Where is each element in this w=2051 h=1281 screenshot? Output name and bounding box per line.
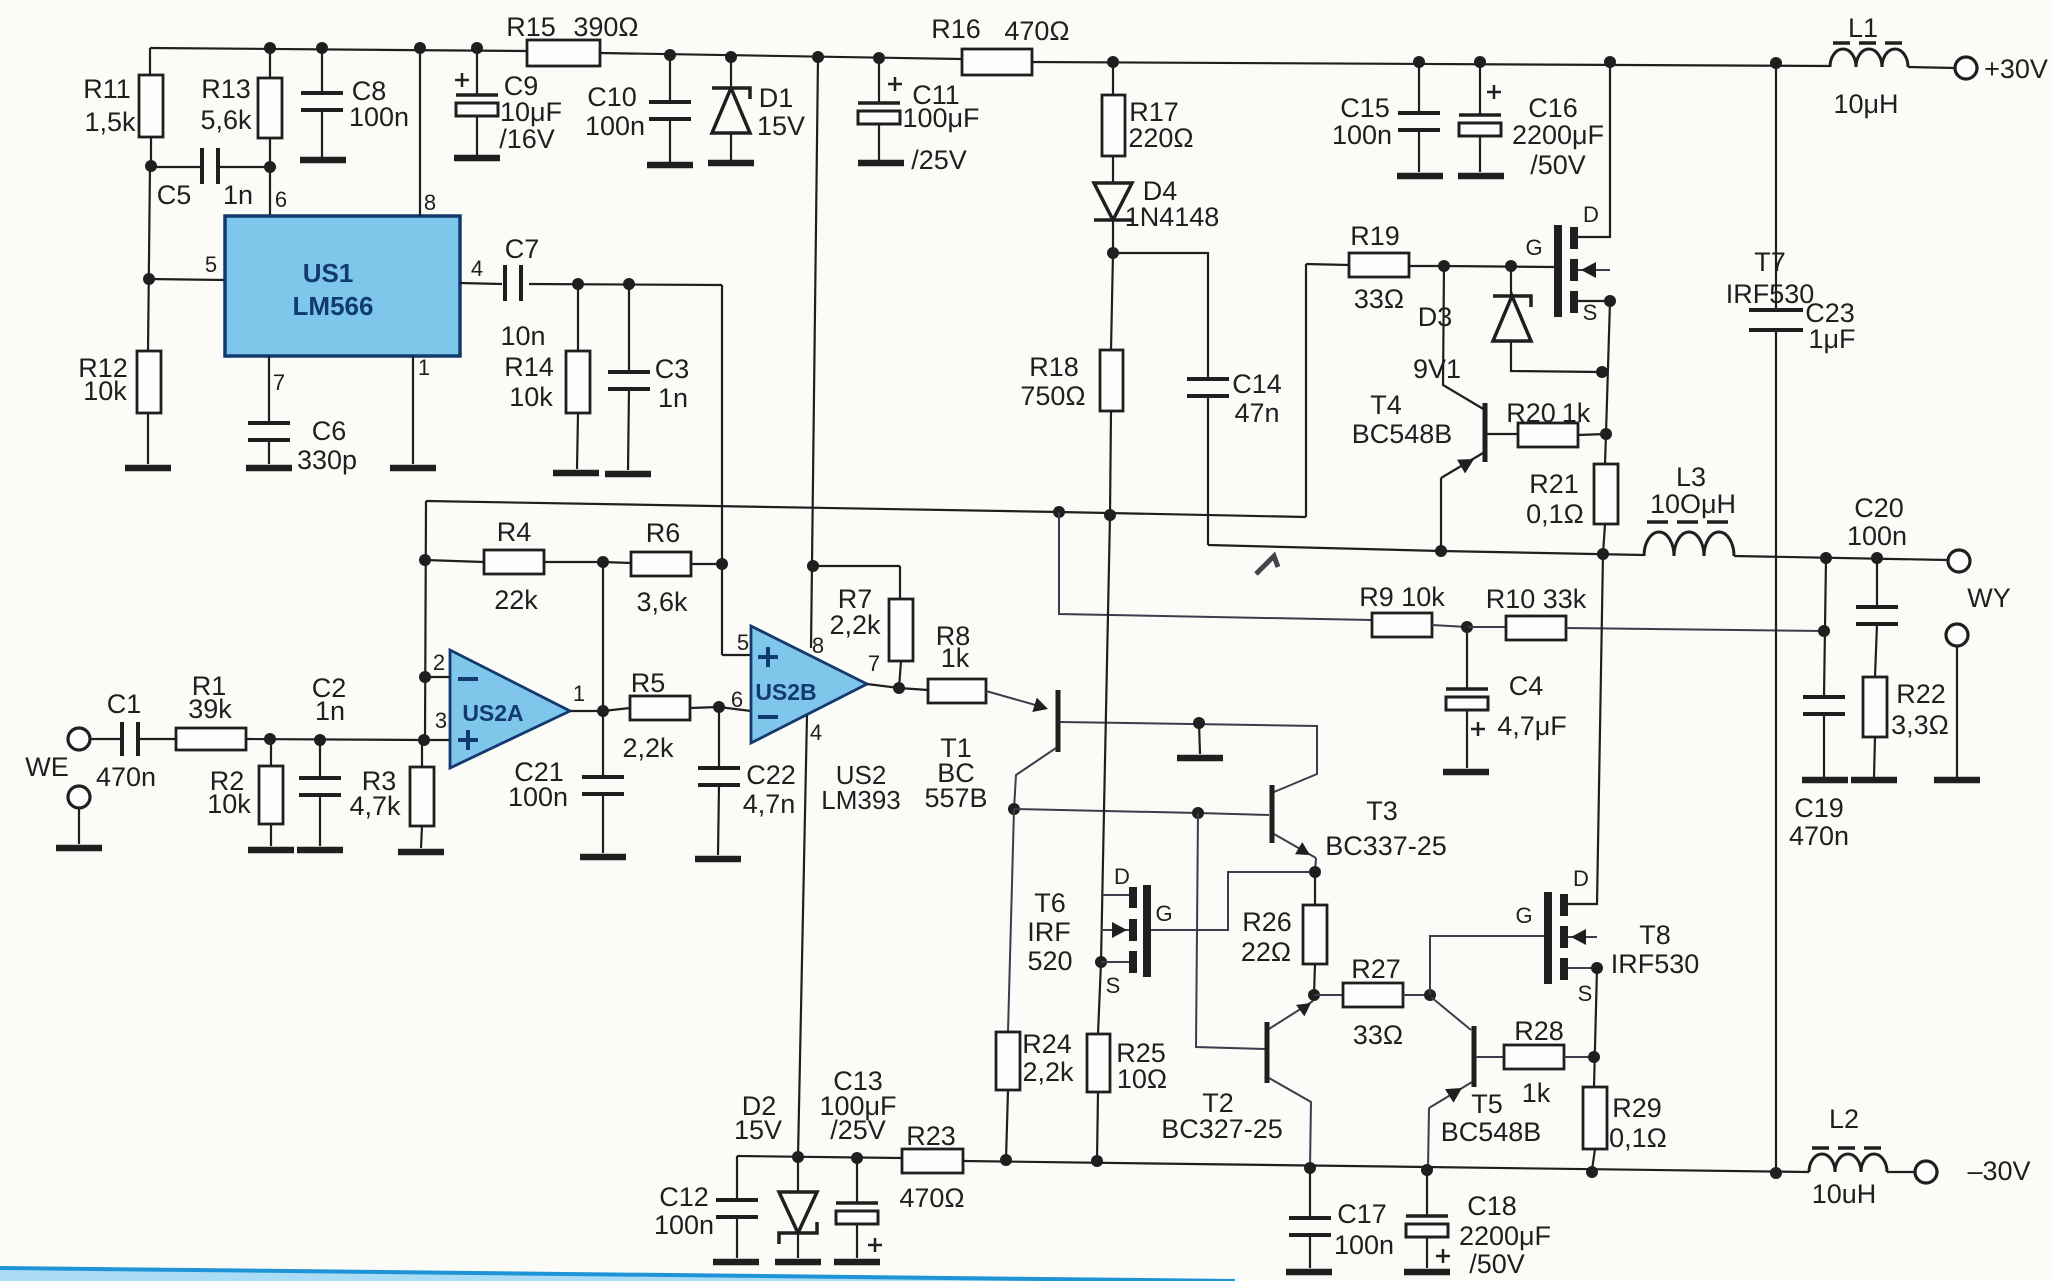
resistor R27	[1314, 994, 1343, 996]
wire left vertical C5 to pin5 to R12	[148, 166, 150, 351]
capacitor C18 electrolytic	[1426, 1170, 1428, 1216]
resistor R1	[176, 728, 246, 750]
capacitor C2	[319, 740, 321, 778]
op-amp US2A	[450, 650, 570, 768]
svg-text:33Ω: 33Ω	[1353, 1020, 1403, 1050]
wire C14 bottom to output rail	[1208, 545, 1441, 551]
wire T6 drain lead	[1101, 894, 1129, 896]
ground C22	[695, 856, 741, 863]
ground D2	[775, 1259, 821, 1266]
svg-text:C7: C7	[505, 234, 540, 264]
ground D1	[708, 160, 754, 167]
svg-text:IRF: IRF	[1027, 917, 1071, 947]
ground C13	[834, 1259, 880, 1266]
wire R12 to ground	[147, 413, 149, 464]
capacitor C5	[151, 166, 200, 168]
svg-text:C17: C17	[1337, 1199, 1387, 1229]
svg-text:R4: R4	[497, 517, 532, 547]
ground R14	[553, 470, 599, 477]
ground pin1	[390, 465, 436, 472]
svg-text:6: 6	[275, 187, 287, 212]
ground C18	[1404, 1269, 1450, 1276]
svg-text:9V1: 9V1	[1413, 354, 1461, 384]
svg-text:6: 6	[731, 687, 743, 712]
svg-text:C14: C14	[1232, 369, 1282, 399]
resistor R10	[1467, 626, 1506, 628]
svg-text:G: G	[1155, 901, 1172, 926]
node T3emitter-R26-gate	[1309, 866, 1321, 878]
wire R27 node to T8 gate	[1430, 936, 1544, 995]
wire T4 collector	[1443, 266, 1485, 410]
svg-text:2200μF: 2200μF	[1512, 120, 1604, 150]
node fb-R4	[419, 554, 431, 566]
wire US2B V+ from rail	[811, 57, 818, 648]
svg-text:10OμH: 10OμH	[1650, 489, 1736, 519]
node T6 source	[1095, 956, 1107, 968]
ground R22	[1851, 777, 1897, 784]
wire top rail right segment to L1	[1032, 62, 1830, 66]
svg-text:US2B: US2B	[755, 679, 816, 705]
wire R8 to T1 emitter	[986, 691, 1046, 708]
node pin5 junction	[143, 273, 155, 285]
resistor R19	[1306, 264, 1349, 265]
resistor R4	[425, 560, 484, 562]
node T7 source	[1604, 295, 1616, 307]
svg-text:4,7μF: 4,7μF	[1497, 711, 1567, 741]
wire T8 source lead	[1568, 967, 1597, 969]
svg-text:R13: R13	[201, 74, 251, 104]
svg-text:R5: R5	[631, 668, 666, 698]
svg-text:R23: R23	[906, 1121, 956, 1151]
node T4emitter-rail	[1435, 545, 1447, 557]
wire T8 drain lead	[1568, 554, 1603, 904]
node C5-R13	[264, 161, 276, 173]
transistor T3 BC337-25	[1270, 785, 1275, 843]
capacitor C9 electrolytic	[476, 48, 478, 95]
svg-text:10μF: 10μF	[500, 97, 562, 127]
transistor T8 IRF530	[1544, 892, 1552, 984]
svg-text:3,3Ω: 3,3Ω	[1891, 710, 1949, 740]
resistor R9	[1372, 613, 1432, 637]
wire T6 source lead	[1101, 961, 1129, 963]
IC US1 LM566	[225, 216, 460, 356]
svg-text:D: D	[1583, 202, 1599, 227]
svg-text:220Ω: 220Ω	[1128, 123, 1193, 153]
svg-text:WE: WE	[25, 752, 69, 782]
svg-text:C20: C20	[1854, 493, 1904, 523]
wire gate drive to T7	[1444, 266, 1554, 267]
wire R18 node long vertical to T6 source	[1101, 515, 1110, 962]
resistor R13	[269, 48, 271, 78]
node R2 tap	[264, 733, 276, 745]
wire T1 base to T3 collector net	[1060, 722, 1317, 792]
svg-text:WY: WY	[1967, 583, 2011, 613]
wire T6 source to R25	[1098, 962, 1101, 1034]
svg-text:10k: 10k	[83, 376, 127, 406]
svg-text:/25V: /25V	[911, 145, 967, 175]
wire R4R6 node down to output node	[602, 562, 604, 711]
svg-text:T5: T5	[1471, 1089, 1503, 1119]
svg-text:22Ω: 22Ω	[1241, 937, 1291, 967]
svg-text:7: 7	[273, 370, 285, 395]
wire top rail R15-R16 segment	[600, 53, 962, 59]
svg-text:5: 5	[205, 252, 217, 277]
ground C19	[1802, 777, 1848, 784]
ground R3	[398, 849, 444, 856]
svg-text:470n: 470n	[96, 762, 156, 792]
svg-text:IRF530: IRF530	[1726, 279, 1815, 309]
svg-text:470Ω: 470Ω	[899, 1183, 964, 1213]
wire US2A feedback vertical	[425, 501, 426, 740]
ground R12	[125, 465, 171, 472]
node rail-T7drain	[1604, 56, 1616, 68]
capacitor C15	[1418, 62, 1420, 113]
svg-text:15V: 15V	[734, 1115, 782, 1145]
node rail-C20	[1871, 552, 1883, 564]
node R18-feedback	[1104, 509, 1116, 521]
svg-text:R18: R18	[1029, 352, 1079, 382]
node rail-C9	[471, 42, 483, 54]
svg-text:C3: C3	[655, 354, 690, 384]
node R27-T8gate-T5coll	[1424, 989, 1436, 1001]
svg-text:330p: 330p	[297, 445, 357, 475]
capacitor C14	[1187, 377, 1229, 381]
capacitor C21	[602, 711, 604, 777]
resistor R22	[1863, 677, 1887, 737]
wire WY lower to ground	[1956, 646, 1958, 777]
wire T7 body lead	[1578, 269, 1610, 271]
transistor T5 BC548B	[1472, 1026, 1477, 1087]
node rail-C13	[851, 1152, 863, 1164]
svg-text:390Ω: 390Ω	[573, 12, 638, 42]
svg-text:C4: C4	[1509, 671, 1544, 701]
svg-text:1: 1	[418, 355, 430, 380]
wire T5 collector	[1431, 997, 1471, 1030]
resistor R29	[1583, 1087, 1607, 1149]
wire T8 source down to R29	[1594, 968, 1597, 1087]
svg-text:R9 10k: R9 10k	[1359, 582, 1445, 612]
svg-text:L3: L3	[1676, 462, 1706, 492]
svg-text:10uH: 10uH	[1812, 1179, 1877, 1209]
svg-text:L2: L2	[1829, 1104, 1859, 1134]
svg-text:D3: D3	[1418, 302, 1453, 332]
wire +15V top rail left segment	[150, 48, 527, 51]
node rail-pin8US1	[414, 42, 426, 54]
node rail-C16	[1474, 56, 1486, 68]
resistor R16	[962, 49, 1032, 75]
wire US2B output	[867, 684, 899, 688]
svg-text:R26: R26	[1242, 907, 1292, 937]
svg-text:2: 2	[433, 650, 445, 675]
wire T8 body lead	[1568, 936, 1597, 938]
svg-text:1μF: 1μF	[1808, 324, 1855, 354]
svg-text:D1: D1	[759, 83, 794, 113]
resistor R7	[813, 565, 900, 567]
node gate-D3	[1505, 260, 1517, 272]
capacitor C17	[1309, 1168, 1311, 1218]
node rail-US2B-V+	[812, 51, 824, 63]
node T1coll-R24-T3base	[1008, 803, 1020, 815]
svg-text:C16: C16	[1528, 93, 1578, 123]
node rail-C19branch	[1820, 552, 1832, 564]
svg-text:R11: R11	[83, 74, 131, 104]
svg-text:C5: C5	[157, 180, 192, 210]
inductor L1	[1830, 49, 1908, 67]
svg-text:BC337-25: BC337-25	[1325, 831, 1447, 861]
svg-text:R29: R29	[1612, 1093, 1662, 1123]
svg-text:C15: C15	[1340, 93, 1390, 123]
svg-text:T6: T6	[1034, 888, 1066, 918]
resistor R2	[270, 739, 272, 766]
svg-text:33Ω: 33Ω	[1354, 284, 1404, 314]
node R21-L3-T8drain	[1597, 548, 1609, 560]
wire US2A output	[570, 710, 603, 712]
diode D4 1N4148	[1112, 156, 1114, 183]
svg-text:520: 520	[1027, 946, 1072, 976]
node C19-R10	[1818, 625, 1830, 637]
terminal WE upper	[68, 728, 90, 750]
svg-text:1n: 1n	[223, 180, 253, 210]
svg-text:–30V: –30V	[1967, 1156, 2030, 1186]
svg-text:D: D	[1573, 866, 1589, 891]
wire L1 to +30V terminal	[1908, 67, 1955, 68]
svg-text:R15: R15	[506, 12, 556, 42]
decorative blue footer	[0, 1270, 1235, 1281]
resistor R17	[1112, 62, 1114, 95]
resistor R11	[149, 48, 151, 75]
wire T1 collector to R24	[1008, 809, 1014, 1032]
node D3 anode tap	[1596, 366, 1608, 378]
wire bottom rail	[737, 1156, 902, 1158]
transistor T4 BC548B	[1483, 403, 1488, 462]
svg-text:100n: 100n	[585, 111, 645, 141]
svg-text:BC548B: BC548B	[1352, 419, 1453, 449]
capacitor C3	[628, 284, 630, 372]
svg-text:4,7n: 4,7n	[743, 789, 796, 819]
svg-text:750Ω: 750Ω	[1020, 381, 1085, 411]
svg-text:D: D	[1114, 864, 1130, 889]
resistor R8	[899, 688, 928, 690]
svg-text:R19: R19	[1350, 221, 1400, 251]
resistor R20	[1487, 433, 1518, 435]
svg-text:L1: L1	[1848, 13, 1878, 43]
node T1base-ground	[1193, 717, 1205, 729]
wire US1 pin 5	[149, 279, 225, 280]
wire US1 pin 7 to C6	[268, 356, 270, 423]
inductor L3	[1644, 532, 1734, 556]
wire R10 to C19 node	[1566, 628, 1824, 631]
svg-text:T8: T8	[1639, 920, 1671, 950]
wire R9 branch	[1059, 512, 1372, 620]
svg-text:1k: 1k	[1522, 1078, 1551, 1108]
wire R1 to US2A +input	[246, 739, 424, 740]
wire feedback top horizontal	[426, 501, 1306, 517]
node pin4-R14	[572, 278, 584, 290]
ground C6	[246, 465, 292, 472]
svg-text:2,2k: 2,2k	[829, 610, 881, 640]
svg-text:T4: T4	[1370, 390, 1402, 420]
svg-text:4: 4	[810, 720, 822, 745]
svg-text:8: 8	[424, 190, 436, 215]
resistor R25	[1087, 1034, 1110, 1092]
capacitor C12	[736, 1156, 738, 1200]
node rail-C11	[873, 52, 885, 64]
svg-text:BC327-25: BC327-25	[1161, 1114, 1283, 1144]
svg-text:2,2k: 2,2k	[622, 733, 674, 763]
node T8 source	[1591, 962, 1603, 974]
svg-text:1n: 1n	[315, 696, 345, 726]
ground C2	[297, 847, 343, 854]
svg-text:US1: US1	[303, 258, 354, 288]
node fb-pin2	[419, 671, 431, 683]
svg-text:R24: R24	[1022, 1029, 1072, 1059]
ground C8	[300, 157, 346, 164]
wire US1 pin 8	[419, 48, 421, 216]
svg-text:LM393: LM393	[821, 785, 901, 815]
svg-text:5: 5	[737, 630, 749, 655]
inductor L2	[1809, 1154, 1887, 1172]
svg-text:US2A: US2A	[462, 700, 523, 726]
svg-text:100μF: 100μF	[902, 103, 979, 133]
wire US2A -input stub	[425, 676, 450, 678]
svg-text:LM566: LM566	[293, 291, 374, 321]
capacitor C23	[1775, 63, 1777, 310]
svg-text:C18: C18	[1467, 1191, 1517, 1221]
svg-text:1k: 1k	[941, 643, 970, 673]
svg-text:S: S	[1578, 981, 1593, 1006]
capacitor C6	[248, 421, 290, 425]
resistor R12	[137, 351, 161, 413]
ground C10	[647, 162, 693, 169]
svg-text:100n: 100n	[1334, 1230, 1394, 1260]
node rail-C10	[664, 49, 676, 61]
node rail-R29	[1586, 1166, 1598, 1178]
node rail-D1	[725, 51, 737, 63]
svg-text:S: S	[1106, 973, 1121, 998]
node T3base-T2base	[1192, 807, 1204, 819]
svg-text:R20: R20	[1506, 398, 1556, 428]
svg-text:2200μF: 2200μF	[1459, 1221, 1551, 1251]
ground C3	[605, 471, 651, 478]
svg-text:100n: 100n	[508, 782, 568, 812]
svg-text:R10 33k: R10 33k	[1486, 584, 1587, 614]
wire output rail to L3	[1441, 551, 1644, 555]
node R11-C5	[145, 160, 157, 172]
wire to C14	[1113, 253, 1208, 379]
node C2 tap	[314, 734, 326, 746]
ground WY	[1934, 777, 1980, 784]
resistor R15	[527, 40, 600, 66]
terminal WY upper	[1948, 550, 1970, 572]
node R26-R27-T2emitter	[1308, 989, 1320, 1001]
svg-text:0,1Ω: 0,1Ω	[1609, 1123, 1667, 1153]
capacitor C10	[669, 55, 671, 102]
node rail-R24	[1000, 1154, 1012, 1166]
node R20-sourcenet	[1600, 428, 1612, 440]
resistor R5	[603, 708, 630, 711]
svg-text:22k: 22k	[494, 585, 538, 615]
svg-text:C10: C10	[587, 82, 637, 112]
ground C9	[454, 155, 500, 162]
resistor R14	[577, 284, 579, 351]
node R28-T8source	[1588, 1051, 1600, 1063]
capacitor C8	[321, 48, 323, 93]
terminal -30V	[1915, 1161, 1937, 1183]
svg-text:4: 4	[471, 256, 483, 281]
node R5-C22-pin6	[713, 701, 725, 713]
zener D3 9V1	[1510, 266, 1512, 296]
node R4-R6-R5	[597, 556, 609, 568]
resistor R6	[603, 562, 631, 563]
node rail-T5-C18	[1421, 1164, 1433, 1176]
svg-text:47n: 47n	[1234, 398, 1279, 428]
svg-text:R6: R6	[646, 518, 681, 548]
svg-text:S: S	[1583, 300, 1598, 325]
svg-text:BC548B: BC548B	[1441, 1117, 1542, 1147]
wire US1 pin 4	[460, 283, 502, 284]
ground C4	[1443, 769, 1489, 776]
svg-text:10n: 10n	[500, 321, 545, 351]
svg-text:T3: T3	[1366, 796, 1398, 826]
svg-text:10k: 10k	[509, 382, 553, 412]
wire R13 to US1 pin 6	[269, 138, 271, 167]
wire C1 to R1	[140, 738, 176, 740]
node rail-C23	[1770, 57, 1782, 69]
svg-text:1N4148: 1N4148	[1125, 202, 1220, 232]
svg-text:R27: R27	[1351, 954, 1401, 984]
svg-text:470Ω: 470Ω	[1004, 16, 1069, 46]
ground R2	[248, 847, 294, 854]
svg-text:C1: C1	[107, 689, 142, 719]
wire T6 gate to T3 emitter node	[1151, 872, 1315, 930]
node R9 tap	[1053, 506, 1065, 518]
svg-text:15V: 15V	[757, 111, 805, 141]
wire R9 to C4 node	[1432, 625, 1467, 627]
ground C15	[1397, 173, 1443, 180]
resistor R23	[902, 1149, 963, 1173]
node R7 supply tap	[807, 560, 819, 572]
capacitor C22	[718, 707, 720, 768]
wire L3 to output node	[1734, 556, 1948, 560]
svg-text:T7: T7	[1754, 247, 1786, 277]
svg-text:C19: C19	[1794, 793, 1844, 823]
svg-text:3: 3	[435, 708, 447, 733]
resistor R21	[1594, 464, 1618, 524]
zener D1 15V	[730, 57, 732, 88]
svg-text:/25V: /25V	[830, 1115, 886, 1145]
svg-text:IRF530: IRF530	[1611, 949, 1700, 979]
node R9-R10-C4	[1461, 621, 1473, 633]
node out-R7-R8	[893, 682, 905, 694]
svg-text:3,6k: 3,6k	[636, 587, 688, 617]
wire R11 to C5 node	[150, 137, 152, 166]
node out-R5-C21	[597, 705, 609, 717]
svg-text:/50V: /50V	[1530, 150, 1586, 180]
svg-text:10μH: 10μH	[1833, 89, 1898, 119]
resistor R18	[1111, 253, 1113, 350]
svg-text:C22: C22	[746, 760, 796, 790]
svg-text:1n: 1n	[658, 383, 688, 413]
node pin4-C3	[623, 278, 635, 290]
svg-text:G: G	[1525, 235, 1542, 260]
ground C12	[713, 1259, 759, 1266]
wire down to T2 base	[1196, 813, 1265, 1049]
svg-text:R21: R21	[1529, 469, 1579, 499]
svg-text:8: 8	[812, 633, 824, 658]
node R19-T4collector	[1438, 260, 1450, 272]
wire US2B -input stub	[719, 707, 751, 711]
node rail-C8	[316, 42, 328, 54]
